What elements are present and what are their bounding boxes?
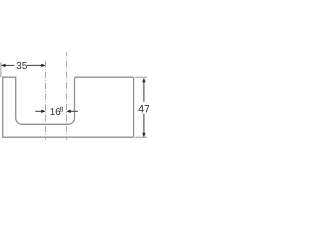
dimension 47 label xyxy=(138,105,149,112)
dimension 47 arrows xyxy=(142,78,145,138)
dimension 35 label xyxy=(17,62,27,69)
extension line top right xyxy=(135,76,147,78)
dimension 16.8 superscript 8 xyxy=(60,107,63,112)
dimension 16.8 arrows xyxy=(41,110,71,113)
dimension 47 line xyxy=(143,79,145,136)
centerline B xyxy=(66,52,68,140)
countertop outline xyxy=(3,77,134,137)
dimension 16.8 line xyxy=(35,110,78,112)
extension line bottom right xyxy=(135,136,147,138)
dimension 16.8 label xyxy=(51,108,61,115)
dimension 35 line xyxy=(2,64,45,66)
extension line left xyxy=(0,62,2,77)
dimension 35 arrows xyxy=(1,64,46,67)
centerline A xyxy=(45,61,47,140)
